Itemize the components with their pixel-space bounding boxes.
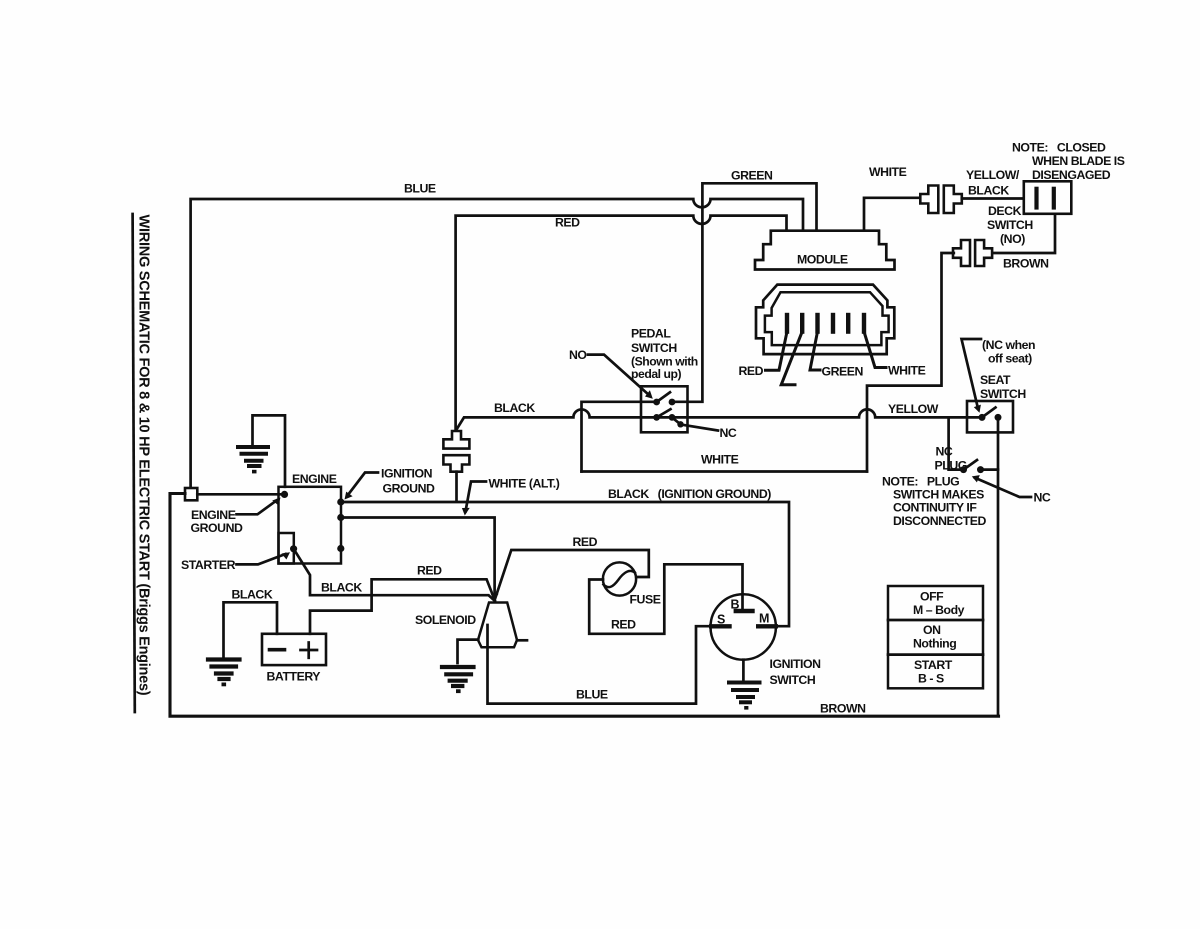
svg-text:M: M	[759, 612, 769, 626]
svg-text:CONTINUITY IF: CONTINUITY IF	[893, 501, 977, 515]
module	[755, 231, 895, 270]
battery minus symbol	[270, 648, 285, 652]
connector pins	[787, 315, 864, 332]
wire battery minus to ground	[224, 602, 278, 657]
wire BLUE (square connector up and across top)	[191, 199, 803, 488]
svg-text:RED: RED	[573, 535, 598, 549]
svg-text:STARTER: STARTER	[181, 558, 236, 572]
seat switch contacts	[979, 414, 1002, 421]
wire right edge: seat switch down to brown bottom	[997, 417, 1000, 715]
svg-text:GROUND: GROUND	[383, 482, 436, 496]
svg-text:NC: NC	[936, 445, 953, 459]
wire WHITE module to connector	[864, 198, 920, 231]
svg-text:YELLOW/: YELLOW/	[966, 168, 1020, 182]
svg-text:B - S: B - S	[918, 672, 944, 686]
svg-text:off seat): off seat)	[988, 352, 1032, 366]
wire BLUE lower (solenoid to ignition S)	[488, 625, 712, 704]
svg-text:DISENGAGED: DISENGAGED	[1032, 168, 1111, 182]
svg-text:NC: NC	[720, 426, 737, 440]
svg-text:FUSE: FUSE	[630, 593, 661, 607]
seat blade	[982, 408, 996, 418]
svg-text:WHITE (ALT.): WHITE (ALT.)	[489, 477, 560, 491]
svg-text:BLUE: BLUE	[576, 688, 608, 702]
svg-text:BLACK: BLACK	[232, 588, 273, 602]
svg-text:PEDAL: PEDAL	[631, 327, 671, 341]
svg-text:WHEN BLADE IS: WHEN BLADE IS	[1032, 154, 1125, 168]
svg-text:NOTE: CLOSED: NOTE: CLOSED	[1012, 141, 1106, 155]
svg-text:RED: RED	[555, 216, 580, 230]
wire NO line to pedal switch	[582, 402, 659, 472]
pedal switch contacts	[653, 399, 684, 428]
seat leader (NC when off seat)	[962, 339, 982, 409]
svg-text:GREEN: GREEN	[731, 169, 773, 183]
svg-text:NO: NO	[569, 348, 587, 362]
solenoid left terminal to ground	[458, 640, 479, 663]
svg-text:BROWN: BROWN	[820, 702, 866, 716]
label PEDAL SWITCH	[631, 327, 698, 382]
label SEAT SWITCH	[980, 373, 1026, 401]
svg-text:BLUE: BLUE	[404, 182, 436, 196]
svg-text:ON: ON	[923, 623, 941, 637]
engine box	[279, 487, 342, 564]
svg-text:SEAT: SEAT	[980, 373, 1011, 387]
svg-text:WIRING SCHEMATIC FOR 8 & 10 HP: WIRING SCHEMATIC FOR 8 & 10 HP ELECTRIC …	[136, 215, 152, 696]
battery plus symbol	[301, 643, 318, 658]
junction dot engine top-left	[281, 491, 288, 498]
solenoid right stub	[517, 639, 527, 642]
svg-text:GROUND: GROUND	[191, 521, 244, 535]
svg-text:pedal up): pedal up)	[631, 367, 682, 381]
pin leader GREEN	[810, 332, 820, 370]
connector pair (white wire)	[920, 186, 962, 214]
svg-text:(NC when: (NC when	[982, 338, 1035, 352]
svg-text:SWITCH MAKES: SWITCH MAKES	[893, 488, 984, 502]
wire BROWN deck switch down to connector	[992, 214, 1056, 253]
ground (battery)	[208, 660, 240, 687]
title WIRING SCHEMATIC	[133, 214, 152, 712]
svg-text:SWITCH: SWITCH	[631, 341, 677, 355]
seat switch box	[967, 401, 1013, 432]
pin leader 2	[781, 332, 802, 385]
svg-text:DISCONNECTED: DISCONNECTED	[893, 514, 987, 528]
wire RED fuse bottom to ignition B	[589, 564, 742, 634]
ground (ignition)	[729, 683, 760, 710]
battery	[262, 634, 326, 665]
starter box	[279, 533, 294, 564]
table OFF/ON/START	[888, 586, 983, 688]
wire RED (top)	[456, 216, 787, 431]
svg-text:SWITCH: SWITCH	[987, 218, 1033, 232]
connector (6-pin) inner shell	[765, 292, 889, 345]
svg-text:WHITE: WHITE	[888, 364, 926, 378]
ground (solenoid)	[442, 667, 474, 693]
connector (6-pin) outer shell	[756, 285, 894, 355]
svg-text:Nothing: Nothing	[913, 637, 956, 651]
svg-text:WHITE: WHITE	[701, 453, 739, 467]
svg-text:BLACK (IGNITION GROUND): BLACK (IGNITION GROUND)	[608, 487, 771, 501]
wire WHITE ALT	[341, 518, 495, 598]
svg-text:GREEN: GREEN	[822, 365, 864, 379]
junction dot starter	[290, 545, 297, 552]
label IGNITION GROUND with leader	[381, 467, 435, 496]
NC plug blade	[964, 460, 978, 470]
ground (above engine)	[238, 415, 285, 486]
svg-text:ENGINE: ENGINE	[292, 472, 337, 486]
svg-text:SWITCH: SWITCH	[770, 673, 816, 687]
pin leader RED	[766, 332, 788, 371]
label NC PLUG	[935, 445, 967, 473]
wire RED battery to solenoid	[310, 579, 495, 634]
terminal letters B S M	[717, 598, 769, 627]
wire GREEN	[673, 183, 817, 401]
svg-text:OFF: OFF	[920, 590, 944, 604]
svg-text:NC: NC	[1034, 491, 1051, 505]
svg-text:BLACK: BLACK	[968, 184, 1009, 198]
wire WHITE lower	[582, 470, 868, 473]
junction dots engine right edge	[337, 498, 344, 552]
deck switch	[1024, 181, 1072, 214]
square connector (engine ground)	[185, 488, 197, 500]
NC plug right link	[981, 468, 999, 471]
connector pair (brown wire)	[953, 240, 992, 266]
wire connector to ignition-ground line	[455, 472, 458, 501]
svg-text:DECK: DECK	[988, 204, 1022, 218]
connector pair (alternator, vertical)	[443, 431, 469, 472]
svg-text:(NO): (NO)	[1000, 232, 1025, 246]
label DECK SWITCH (NO)	[987, 204, 1033, 246]
svg-text:M – Body: M – Body	[913, 603, 965, 617]
svg-text:YELLOW: YELLOW	[888, 402, 939, 416]
svg-text:PLUG: PLUG	[935, 459, 967, 473]
ignition switch	[711, 594, 776, 659]
svg-text:RED: RED	[417, 564, 442, 578]
pin leader WHITE	[864, 332, 886, 368]
svg-text:START: START	[914, 658, 953, 672]
wire white connector to deck switch	[962, 197, 1024, 200]
wire ignition to ground	[742, 660, 745, 680]
svg-text:SWITCH: SWITCH	[980, 387, 1026, 401]
wire BLACK starter cable	[294, 549, 495, 601]
svg-text:MODULE: MODULE	[797, 253, 848, 267]
svg-text:SOLENOID: SOLENOID	[415, 613, 476, 627]
pedal switch box	[641, 386, 688, 432]
note deck switch text	[1012, 141, 1125, 182]
svg-text:BROWN: BROWN	[1003, 257, 1049, 271]
svg-text:BATTERY: BATTERY	[267, 670, 321, 684]
wire brown connector down to white junction	[867, 253, 954, 472]
svg-text:B: B	[731, 598, 740, 612]
NC plug contacts	[960, 466, 984, 473]
svg-text:ENGINE: ENGINE	[191, 508, 236, 522]
wire square to engine	[197, 493, 283, 496]
wire left boundary + brown bottom	[170, 494, 999, 717]
label ENGINE GROUND with leader	[191, 508, 244, 535]
wire BLACK pedal line	[457, 409, 983, 429]
label IGNITION SWITCH	[770, 657, 822, 687]
svg-text:NOTE: PLUG: NOTE: PLUG	[882, 475, 959, 489]
fuse	[603, 562, 636, 595]
svg-text:RED: RED	[611, 618, 636, 632]
wire ignition ground (black)	[341, 502, 789, 626]
svg-text:BLACK: BLACK	[494, 401, 535, 415]
note plug text	[882, 475, 987, 529]
label YELLOW/ BLACK	[966, 168, 1020, 198]
svg-text:IGNITION: IGNITION	[381, 467, 433, 481]
solenoid	[478, 603, 517, 648]
svg-text:IGNITION: IGNITION	[770, 657, 822, 671]
svg-text:S: S	[717, 613, 725, 627]
NC plug left drop	[949, 417, 960, 469]
pedal blades	[657, 392, 670, 402]
svg-text:BLACK: BLACK	[321, 581, 362, 595]
svg-text:WHITE: WHITE	[869, 165, 907, 179]
svg-text:RED: RED	[739, 364, 764, 378]
wire RED fuse top	[495, 550, 649, 600]
